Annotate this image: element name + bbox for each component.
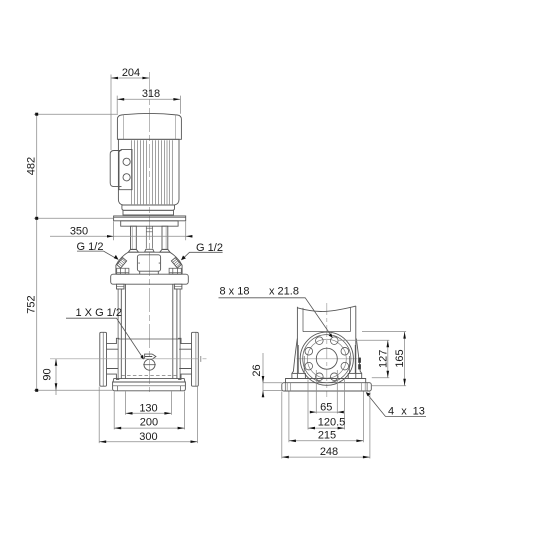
label 4x13 leader: [367, 393, 426, 416]
arrow 248 left: [282, 456, 289, 459]
dim 200 exts: [114, 391, 184, 429]
flange left upper tab: [107, 338, 120, 343]
lantern post left: [131, 226, 137, 249]
head cap bump: [145, 249, 155, 252]
gusset left foot: [292, 373, 306, 378]
arrow 350 left (outside): [107, 235, 114, 238]
bolt circle: [307, 339, 346, 378]
arrow 130 right: [164, 412, 171, 415]
gusset right inner edges: [349, 345, 355, 373]
chamber wall left inner: [302, 308, 304, 332]
post foot left: [128, 249, 138, 252]
ext line base bottom: [34, 389, 113, 391]
svg-text:215: 215: [318, 430, 336, 442]
arrow 215 right: [356, 440, 363, 443]
arrow 8x18 leader: [329, 333, 333, 337]
centerline pump: [148, 72, 150, 392]
head shoulder left: [116, 252, 128, 274]
chamber joint line: [118, 338, 180, 340]
flange left plate inner line: [102, 333, 104, 387]
plug right (hatched): [171, 258, 181, 268]
dim 215 exts: [289, 392, 364, 443]
svg-text:120.5: 120.5: [318, 417, 346, 429]
base main block: [113, 382, 186, 391]
cable gland circle 2: [123, 174, 130, 181]
svg-text:G 1/2: G 1/2: [77, 241, 104, 253]
guard screws: [138, 263, 160, 274]
flange face circle: [303, 335, 351, 383]
dim 130 exts: [126, 391, 172, 415]
gusset right: [356, 339, 361, 374]
svg-text:90: 90: [42, 368, 54, 380]
bolt hole 5: [316, 373, 324, 381]
dim 200 line: [114, 427, 184, 429]
staybolt lines: [118, 289, 180, 379]
arrow 318 right: [173, 98, 180, 101]
pump head flange: [111, 274, 189, 284]
chamber wall lines: [121, 284, 177, 378]
motor stator body: [118, 139, 179, 205]
lantern post right: [162, 226, 168, 249]
head top line: [303, 331, 350, 333]
dim 65 line: [310, 411, 343, 413]
label 8x18 leader: [219, 298, 332, 337]
dim 300 exts: [99, 387, 197, 444]
base inner verticals: [118, 386, 181, 391]
arrow 318 left: [117, 98, 124, 101]
arrow 127 top: [387, 340, 390, 347]
svg-text:4x13: 4x13: [388, 405, 425, 417]
bolt hole 3: [341, 362, 349, 370]
dim 482/752 vertical line: [36, 114, 38, 390]
section tick: [200, 356, 202, 362]
dim 350 exts: [114, 222, 186, 241]
tie rod nut right: [174, 284, 182, 289]
svg-text:300: 300: [139, 431, 157, 443]
1XG1/2 leader: [66, 318, 143, 358]
dim 26 exts: [263, 383, 282, 391]
bolt hole 4: [330, 373, 338, 381]
arrow 65 right (outside): [337, 411, 344, 414]
arrow 215 left: [289, 440, 296, 443]
arrow 130 left: [126, 412, 133, 415]
arrow G1/2 right leader: [181, 256, 186, 261]
base bolt hole right: [362, 383, 366, 391]
G1/2 right underline+leader: [182, 252, 222, 259]
dim 165 line: [404, 332, 406, 386]
drain boss: [358, 358, 361, 370]
flange left lower tab: [107, 374, 120, 379]
svg-text:248: 248: [320, 446, 338, 458]
arrow 204 right: [142, 77, 149, 80]
ext line motor flange top: [34, 217, 114, 219]
arrow 120.5 left: [308, 427, 315, 430]
arrow 200 right: [178, 427, 185, 430]
motor flange lip line: [114, 217, 186, 219]
bolt hole 2: [341, 347, 349, 355]
bolt hole 1: [330, 337, 338, 345]
flange right plate: [192, 332, 199, 386]
nut right: [169, 268, 181, 274]
dim 127 exts: [338, 340, 390, 378]
vent plug flag: [145, 354, 156, 359]
cap seam left: [122, 115, 124, 140]
base main block: [282, 383, 372, 391]
dim 300 line: [99, 441, 197, 443]
post inner shading: [132, 226, 166, 249]
dim 318 exts: [117, 96, 180, 114]
head top line: [128, 251, 169, 253]
flange right upper tab: [178, 338, 191, 343]
arrow 248 right: [363, 456, 370, 459]
arrow 165 top: [403, 332, 406, 339]
head shoulder right: [170, 252, 182, 274]
svg-text:127: 127: [377, 350, 389, 368]
arrow 350 right (outside): [186, 235, 193, 238]
cap seam right: [175, 115, 177, 140]
post foot right: [160, 249, 170, 252]
svg-text:752: 752: [26, 295, 38, 313]
bolt hole 6: [305, 362, 313, 370]
arrow 300 left: [99, 440, 106, 443]
motor flange lower plate: [121, 221, 178, 226]
bolt hole 8: [316, 337, 324, 345]
svg-text:x 21.8: x 21.8: [269, 286, 299, 298]
centerline vertical: [326, 303, 328, 397]
svg-text:318: 318: [142, 88, 160, 100]
dim 318 line: [117, 98, 180, 100]
base top strip: [113, 379, 185, 382]
svg-text:200: 200: [140, 417, 158, 429]
dim 120.5 exts: [308, 380, 345, 430]
dim 204 line: [111, 77, 149, 79]
vent plug circle: [144, 359, 155, 370]
svg-text:130: 130: [139, 402, 157, 414]
arrow 200 left: [114, 427, 121, 430]
hidden base dashed line: [121, 374, 177, 376]
gusset right foot: [348, 373, 362, 378]
dim 350 line: [50, 235, 193, 237]
dim 248 line: [282, 456, 370, 458]
dim 165 exts: [362, 332, 406, 386]
dim 130 line: [126, 412, 172, 414]
arrow 90 bottom (down): [55, 383, 58, 390]
svg-text:26: 26: [251, 364, 263, 376]
arrow 127 bottom: [387, 371, 390, 378]
flange left hub: [107, 349, 119, 368]
terminal plate: [119, 149, 132, 189]
arrow 300 right: [191, 440, 198, 443]
dim 26 line: [262, 353, 264, 398]
svg-text:G 1/2: G 1/2: [196, 242, 223, 254]
bore circle: [316, 348, 337, 369]
shaft/coupling: [146, 226, 152, 248]
arrow 65 left (outside): [310, 411, 317, 414]
coupling guard box: [137, 255, 160, 271]
flange right hub: [179, 349, 191, 368]
tick 482 top: [35, 113, 38, 116]
dim 65 exts: [316, 370, 337, 414]
arrow G1/2 left leader: [114, 255, 119, 260]
chamber wall right outer: [355, 306, 357, 379]
chamber wall right inner: [349, 307, 351, 332]
arrow 26 top (outside, down): [262, 376, 265, 383]
gusset left: [292, 339, 297, 374]
arrow 90 top (up): [55, 359, 58, 366]
svg-text:1 X G 1/2: 1 X G 1/2: [76, 307, 122, 319]
motor foot band 2: [123, 210, 174, 215]
tie rod nut left: [117, 284, 125, 289]
motor flange plate: [114, 216, 186, 221]
flange outer circle: [300, 332, 353, 385]
flange left plate: [100, 332, 107, 386]
svg-text:65: 65: [320, 402, 332, 414]
bolt hole 7: [305, 347, 313, 355]
base end verticals: [285, 383, 367, 391]
motor fins: [132, 140, 173, 204]
arrow 4x13 leader: [366, 392, 371, 396]
dim 215 line: [289, 440, 364, 442]
dim 127 line: [387, 340, 389, 378]
nut left: [117, 268, 129, 274]
base inner line: [113, 385, 186, 387]
chamber wall left outer: [296, 307, 298, 379]
port centerline: [50, 358, 207, 360]
flange right lower tab: [178, 374, 191, 379]
wavy break line top: [297, 306, 355, 311]
cable gland circle 1: [123, 158, 130, 165]
dim 90 vertical line: [55, 359, 57, 395]
arrow 204 left: [111, 77, 118, 80]
gusset left inner edges: [298, 345, 304, 373]
dim 248 exts: [282, 392, 370, 459]
base top plate: [286, 379, 366, 383]
svg-text:8 x 18: 8 x 18: [220, 286, 250, 298]
G1/2 left underline+leader: [77, 251, 117, 259]
ext line motor top: [34, 113, 118, 115]
svg-text:165: 165: [394, 349, 406, 367]
tick 482/752 mid: [35, 217, 38, 220]
motor fan cover cap: [117, 113, 181, 139]
svg-text:350: 350: [70, 225, 88, 237]
arrow 120.5 right: [338, 427, 345, 430]
centerline horizontal: [297, 358, 358, 360]
arrow 165 bottom: [403, 379, 406, 386]
arrow 1XG1/2 leader: [140, 355, 144, 360]
tick 752 bottom: [35, 389, 38, 392]
flange right plate inner line: [195, 333, 197, 387]
motor foot band 1: [122, 205, 175, 210]
plug left (hatched): [117, 258, 127, 268]
dim 204 ext: [110, 75, 112, 151]
terminal box: [110, 151, 121, 187]
arrow 26 bottom (outside, up): [262, 391, 265, 398]
svg-text:204: 204: [122, 67, 140, 79]
svg-text:482: 482: [26, 157, 38, 175]
base bolt hole left: [287, 383, 291, 391]
dim 120.5 line: [308, 427, 345, 429]
vent plug center line: [143, 364, 156, 366]
